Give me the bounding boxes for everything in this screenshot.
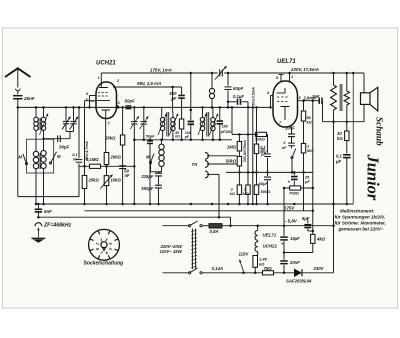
resistor 1k bottom (238, 172, 240, 185)
UCH21 pin 3 lead (116, 105, 118, 107)
wire long vertical V4 (256, 107, 258, 144)
svg-text:4kΩ: 4kΩ (316, 237, 326, 242)
band switch M right (49, 162, 51, 164)
wire TA1 (207, 155, 237, 157)
UEL71 pin 3 anode lead (298, 100, 320, 102)
svg-text:175V, 1mA: 175V, 1mA (150, 68, 172, 73)
svg-text:5nF: 5nF (44, 209, 52, 214)
svg-text:für Spannungen 1kΩ/V,: für Spannungen 1kΩ/V, (335, 215, 385, 220)
svg-text:20nF: 20nF (289, 260, 300, 265)
oscillator coil anode (211, 72, 214, 75)
mains cable (191, 229, 193, 270)
capacitor 16uF (283, 226, 285, 236)
svg-text:60μF: 60μF (259, 181, 269, 186)
trimmer capacitor C-trim1 (65, 107, 67, 120)
capacitor on anode drop (190, 73, 192, 120)
svg-text:ZF=468kHz: ZF=468kHz (43, 223, 72, 229)
wire long vertical V3 (247, 102, 249, 185)
bus 175V y=210.8 (85, 210, 313, 212)
antenna (5, 68, 31, 77)
resistor 50k screen (303, 101, 305, 111)
mains switch bottom (163, 272, 189, 274)
svg-text:25kΩ: 25kΩ (88, 178, 100, 183)
wire anode rail y=73 (101, 72, 217, 74)
svg-text:MΩ: MΩ (243, 192, 249, 196)
svg-text:175V: 175V (284, 205, 295, 210)
output transformer primary (331, 85, 337, 110)
resistor 0.1M (254, 144, 258, 154)
svg-text:Schaub: Schaub (375, 117, 385, 146)
svg-text:230V: 230V (313, 266, 325, 271)
capacitor 25nF antenna (13, 95, 22, 97)
svg-text:0,14A: 0,14A (212, 266, 223, 271)
heater UCH21 (257, 240, 259, 242)
output transformer core (339, 84, 341, 111)
svg-text:gemessen bei 220V~: gemessen bei 220V~ (338, 227, 384, 232)
antenna coil secondary L2 (43, 107, 45, 117)
UEL71 grid corner (270, 96, 272, 108)
IF2 secondary winding (211, 117, 216, 122)
mains wire top (163, 225, 189, 227)
ZF coupling arc (35, 223, 42, 227)
resistor 1.45k dropper (257, 252, 259, 256)
svg-text:50pF: 50pF (125, 99, 136, 104)
wire hum line (352, 73, 354, 204)
svg-text:50kΩ: 50kΩ (105, 136, 116, 141)
UCH21 pin 2 lead (113, 86, 135, 88)
capacitor 0.1uF tone (343, 154, 351, 156)
svg-text:M: M (146, 155, 150, 160)
wire TA3 (207, 173, 219, 175)
tone switch (291, 146, 293, 149)
svg-text:pF: pF (170, 96, 177, 101)
capacitor 30pF (44, 138, 71, 140)
IF transformer 1 core (166, 112, 168, 137)
resistor 700 ohm (290, 186, 301, 190)
resistor screen between IF windings (181, 87, 183, 95)
svg-text:290Ω: 290Ω (110, 155, 122, 160)
potentiometer 10k volume (106, 166, 108, 176)
capacitor 0.1uF osc grid (228, 101, 236, 103)
wire avc branch x=79 (78, 107, 80, 158)
wave band coil L4 (LW right) (41, 150, 46, 155)
capacitor 180pF (219, 107, 221, 120)
IF transformer 2 core (206, 112, 208, 137)
svg-text:pF: pF (260, 152, 266, 157)
IF1 secondary winding (171, 117, 176, 122)
svg-text:1: 1 (231, 188, 233, 192)
svg-text:kΩ: kΩ (175, 135, 180, 139)
svg-text:225pF: 225pF (140, 174, 154, 179)
capacitor 50pF tone (267, 134, 269, 152)
svg-text:50kΩ: 50kΩ (261, 189, 272, 194)
wire speaker feed (363, 73, 365, 93)
svg-text:kΩ: kΩ (337, 136, 343, 141)
svg-text:110V~ 15W: 110V~ 15W (160, 249, 183, 254)
UCH21 grids (98, 92, 100, 94)
wire vertical 175V right (312, 101, 314, 235)
resistor 30k tone (346, 122, 348, 131)
switch M oscillator (149, 161, 151, 163)
resistor 1M (237, 141, 241, 151)
UEL71 pin 7 lead (291, 127, 293, 131)
svg-text:nF: nF (282, 145, 287, 150)
svg-text:115V: 115V (239, 251, 250, 256)
svg-text:75Ω: 75Ω (264, 266, 273, 271)
svg-text:für Ströme: Mavometer,: für Ströme: Mavometer, (335, 221, 386, 226)
svg-text:1: 1 (291, 75, 293, 79)
svg-text:10kΩ: 10kΩ (111, 178, 122, 183)
wire B+ vertical (333, 122, 335, 226)
coil core marks (38, 118, 40, 130)
capacitor 50pF osc (227, 72, 230, 75)
svg-text:UCH21: UCH21 (96, 61, 116, 67)
svg-text:UCH21: UCH21 (263, 244, 278, 249)
capacitor electrolytic 25uF (293, 172, 295, 175)
wire long vertical 2 (252, 107, 254, 204)
rectifier SAF263 (294, 269, 302, 277)
svg-text:3nF: 3nF (312, 94, 320, 99)
resistor 75 ohm (263, 271, 274, 275)
svg-text:UEL71: UEL71 (277, 59, 296, 65)
wire osc grid row (162, 106, 228, 108)
resistor 2M (246, 185, 250, 195)
UEL71 pin 6 lead (280, 75, 282, 82)
capacitor 225pF (155, 172, 162, 174)
trimmer capacitor C-trim2 (73, 107, 75, 120)
socket center key (101, 242, 107, 248)
svg-text:10nF: 10nF (285, 125, 295, 130)
svg-text:180: 180 (222, 125, 228, 129)
IF1 trimmer arrow right (170, 114, 179, 136)
wire row y=134.4 (232, 133, 268, 135)
output transformer secondary (344, 91, 349, 105)
resistor 50k grid leak (122, 107, 124, 135)
UEL71 grids (277, 96, 279, 98)
svg-text:kΩ: kΩ (307, 120, 312, 125)
svg-text:+: + (288, 180, 291, 185)
resistor 50k bottom (254, 185, 258, 195)
wave band coil L3 (LW left) (33, 151, 38, 156)
svg-text:95V, 2,6 mA: 95V, 2,6 mA (137, 81, 161, 86)
svg-text:nF: nF (125, 173, 131, 178)
svg-text:pF: pF (184, 135, 190, 139)
svg-text:0,8A: 0,8A (210, 229, 219, 234)
band switch frame (27, 139, 54, 173)
wire screen rail y=87 (135, 86, 182, 88)
wire bottom-left return (18, 196, 79, 198)
wire trimmer join (66, 131, 74, 133)
wire grid rail y=107.4 (18, 106, 162, 108)
svg-text:pF180: pF180 (220, 130, 231, 134)
band switch M left (25, 162, 27, 164)
svg-text:UEL71: UEL71 (263, 233, 277, 238)
IF1 trimmer arrow left (158, 114, 167, 136)
bus bias y=217.2 (38, 216, 230, 218)
svg-text:M: M (57, 154, 61, 159)
wire row y=172.4 (226, 171, 313, 173)
resistor 1M grid (303, 141, 305, 144)
capacitor 20nF (283, 253, 285, 260)
coil trimmer arrow (40, 114, 49, 136)
oscillator coil block lower (161, 140, 163, 144)
UEL71 pin 1 lead (289, 73, 291, 81)
resistor 290 ohm cathode (104, 153, 109, 165)
resistor 4k filter (311, 234, 315, 243)
svg-text:TA: TA (192, 162, 198, 167)
wire antenna down-lead (17, 99, 19, 197)
IF2 primary winding (202, 107, 204, 117)
svg-text:μF: μF (335, 159, 342, 164)
svg-text:20V,80/75mA: 20V,80/75mA (243, 140, 247, 163)
wire 175V row y=188 (284, 187, 313, 189)
osc trimmer capacitor A (133, 107, 135, 121)
wire grid row extension (228, 106, 271, 108)
svg-text:Junior: Junior (364, 154, 383, 201)
antenna coil primary L1 (35, 107, 37, 117)
capacitor 50uF (267, 172, 269, 176)
wire avc row y=166.3 (79, 165, 134, 167)
capacitor 500pF (171, 86, 174, 89)
UCH21 pin 1 lead (100, 73, 102, 82)
svg-text:M: M (19, 155, 23, 160)
UEL71 cathode (281, 106, 290, 108)
capacitor 50nF (119, 165, 126, 167)
wire B+ down right (333, 226, 335, 273)
resistor 0.1M avc (90, 164, 101, 168)
oscillator tuning capacitor (219, 70, 221, 77)
svg-text:50kΩ: 50kΩ (226, 159, 237, 164)
UCH21 anode (99, 87, 108, 89)
svg-text:16μF: 16μF (290, 236, 300, 241)
capacitor 3nF feedback (318, 97, 320, 104)
tube UEL71 (273, 81, 298, 127)
resistor 50k coupling (237, 156, 241, 166)
wire osc grid corner x=232 (228, 106, 232, 108)
svg-text:SAF263/9,04: SAF263/9,04 (286, 279, 312, 284)
svg-text:500pF: 500pF (141, 186, 154, 191)
ground (32, 237, 46, 239)
svg-text:1MΩ: 1MΩ (227, 145, 237, 150)
svg-text:1: 1 (98, 76, 100, 80)
svg-text:25nF: 25nF (23, 96, 35, 101)
svg-text:0,1μF: 0,1μF (233, 94, 244, 99)
svg-text:Sockelschaltung: Sockelschaltung (84, 261, 124, 267)
wire to chassis (37, 228, 39, 238)
tube socket diagram (89, 229, 120, 260)
svg-text:kΩ: kΩ (230, 192, 235, 196)
svg-text:0,1: 0,1 (336, 154, 342, 159)
osc trimmer capacitor B (143, 107, 145, 121)
wire avc vertical (84, 101, 86, 167)
wire speaker return line y=121.7 (323, 121, 365, 123)
ground bus y=204 (38, 203, 353, 205)
svg-text:50V,0,5mA: 50V,0,5mA (251, 87, 255, 106)
wire if bottom row y=139.8 (134, 139, 232, 141)
wire filter bottom (284, 252, 313, 254)
pickup jacks TA (205, 152, 208, 159)
svg-text:50pF: 50pF (233, 86, 244, 91)
svg-text:Meßinstrument:: Meßinstrument: (340, 209, 375, 214)
svg-text:μF: μF (304, 179, 310, 184)
heater UEL71 (257, 226, 259, 231)
speaker (361, 93, 371, 105)
svg-text:8μF: 8μF (302, 216, 310, 221)
svg-text:30pF: 30pF (59, 145, 70, 150)
svg-text:- 5,8V: - 5,8V (285, 218, 298, 223)
capacitor 5nF (37, 204, 39, 209)
svg-text:nF: nF (73, 157, 78, 162)
UCH21 cathode (102, 109, 111, 111)
capacitor 500pF padder (155, 184, 162, 186)
tube UCH21 (96, 82, 117, 119)
wire to rectifier (274, 272, 295, 274)
resistor 50k row (256, 132, 267, 136)
mains switch top (189, 225, 191, 227)
wire TA2 (207, 163, 237, 165)
capacitor 2nF (288, 142, 295, 144)
svg-text:220V, 17,5mA: 220V, 17,5mA (290, 67, 319, 72)
UCH21 pins 5 6 leads (90, 95, 97, 97)
svg-text:50pF: 50pF (146, 135, 155, 139)
resistor 25k (84, 166, 86, 176)
fuse 0.8A (209, 224, 222, 228)
wire heater top (222, 225, 334, 227)
svg-text:0,1MΩ: 0,1MΩ (86, 157, 99, 162)
svg-text:700Ω: 700Ω (289, 190, 300, 195)
capacitor 0.1nF (76, 159, 83, 161)
IF1 primary winding (161, 107, 163, 117)
